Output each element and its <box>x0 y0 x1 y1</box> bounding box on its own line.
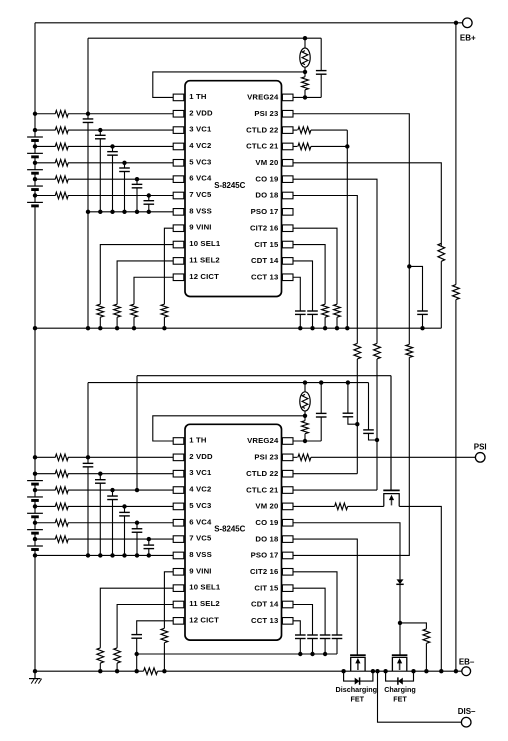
resistor charging gate pulldown <box>423 629 430 643</box>
wire clamp FET source to EB- column <box>399 506 441 671</box>
junction battery rail / row 5 (upper) <box>33 177 37 181</box>
svg-text:CCT 13: CCT 13 <box>251 616 278 625</box>
pin box 17 (upper right) <box>282 209 293 216</box>
wire CTLC 21 (upper) with resistor <box>293 145 298 147</box>
svg-text:FET: FET <box>393 694 407 703</box>
wire row to pin 7 (upper) with series resistor <box>35 195 56 197</box>
junction rail / VSS bus (upper) <box>33 326 37 330</box>
terminal EB+ <box>463 18 473 28</box>
pin box 13 (lower right) <box>282 618 293 625</box>
capacitor CDT (upper) <box>307 310 318 312</box>
junction filter cap tap (lower col 137.0) <box>135 521 139 525</box>
svg-text:10 SEL1: 10 SEL1 <box>189 583 221 592</box>
svg-text:PSI: PSI <box>474 443 487 452</box>
svg-text:4 VC2: 4 VC2 <box>189 485 211 494</box>
svg-text:DO 18: DO 18 <box>255 191 279 200</box>
resistor CIT (upper) <box>322 304 329 317</box>
wire pin 9 (upper) to pulldown column <box>164 228 173 304</box>
resistor pulldown (upper col 164.4) <box>161 304 168 317</box>
junction VSS row (upper) <box>86 210 90 214</box>
transistor Q3 Charging FET <box>392 654 408 656</box>
battery cell BT7 (lower stack) <box>27 496 43 498</box>
wire VM 20 (lower) with resistor to clamp FET <box>293 505 335 507</box>
junction PSI cap branch (upper) <box>407 264 411 268</box>
svg-text:6 VC4: 6 VC4 <box>189 517 212 526</box>
transistor Q1 VM clamp FET (lower) <box>383 489 399 491</box>
wire upper VSS bus (y=328.2) <box>35 327 441 329</box>
junction rail B / VREG cap column <box>319 380 323 384</box>
pin box 9 (lower left) <box>173 569 184 576</box>
pin box 8 (upper left) <box>173 209 184 216</box>
op-amp IC U1 S-8245C (upper) body <box>185 81 282 297</box>
wire DO 18 (lower) to discharging FET gate <box>293 539 358 655</box>
wire pin 10 (lower) to pulldown column <box>100 588 173 648</box>
wire VREG24 pin to cap (upper) <box>293 96 322 98</box>
wire TH pin 1 routing (upper) <box>153 72 305 98</box>
capacitor CIT (lower) <box>320 634 331 636</box>
svg-text:CTLC 21: CTLC 21 <box>246 485 279 494</box>
capacitor cell filter C (upper, col 148.8) <box>148 196 150 201</box>
wire upper VDD rail drop (x=88) <box>87 38 89 114</box>
terminal DIS- <box>461 717 471 727</box>
junction filter cap tap (lower col 112.5) <box>110 488 114 492</box>
pin box 20 (upper right) <box>282 160 293 167</box>
junction VSS row (lower) <box>135 553 139 557</box>
wire VM 20 (upper) to divider <box>293 163 442 246</box>
wire rail segments between upper cells <box>34 141 36 154</box>
capacitor CICT (lower) <box>131 634 142 636</box>
junction pulldown to ground bus <box>115 669 119 673</box>
junction battery rail / row 6 (upper) <box>33 193 37 197</box>
junction battery rail / row 2 (lower) <box>33 472 37 476</box>
junction CO gate / pull resistor <box>398 621 402 625</box>
svg-text:CTLD 22: CTLD 22 <box>246 125 278 134</box>
wire CIT 15 (upper) <box>293 245 325 305</box>
capacitor cell filter C (upper, col 100.3) <box>99 130 101 135</box>
wire rail A to FET gate <box>390 376 392 490</box>
wire ground bus left segment <box>35 670 144 672</box>
svg-text:7 VC5: 7 VC5 <box>189 190 212 199</box>
svg-text:11 SEL2: 11 SEL2 <box>189 599 220 608</box>
junction gate pulldown to EB- bus <box>424 669 428 673</box>
svg-text:EB–: EB– <box>459 658 475 667</box>
thermistor TH2 (lower) <box>304 383 306 392</box>
svg-text:S-8245C: S-8245C <box>214 525 245 534</box>
pin box 22 (upper right) <box>282 127 293 134</box>
pin box 24 (upper right) <box>282 94 293 101</box>
svg-text:10 SEL1: 10 SEL1 <box>189 239 221 248</box>
pin box 22 (lower right) <box>282 470 293 477</box>
pin box 1 (lower left) <box>173 438 184 445</box>
wire row to pin 5 (lower) with series resistor <box>35 505 56 507</box>
svg-text:5 VC3: 5 VC3 <box>189 157 211 166</box>
wire pin 9 VINI (lower) to sense resistor <box>164 572 173 629</box>
resistor pulldown (lower col 117.1) <box>114 648 121 663</box>
svg-text:2 VDD: 2 VDD <box>189 452 213 461</box>
wire DO 18 (upper) drop to lower CTLD <box>293 196 358 344</box>
junction CDT to bus <box>310 326 314 330</box>
wire CO 19 (upper) drop to lower CTLC <box>293 179 377 343</box>
capacitor PSI filter (upper) <box>417 310 428 312</box>
svg-text:CIT 15: CIT 15 <box>254 240 279 249</box>
junction CO column cap branch <box>375 438 379 442</box>
wire row to pin 5 (upper) with series resistor <box>35 162 56 164</box>
svg-text:Discharging: Discharging <box>336 685 378 694</box>
junction VSS row (lower) <box>122 553 126 557</box>
pin box 21 (upper right) <box>282 143 293 150</box>
resistor CO-CTLC interlink <box>374 343 381 359</box>
pin box 14 (lower right) <box>282 601 293 608</box>
capacitor cell filter C (upper, col 137.0) <box>136 179 138 184</box>
battery cell BT10 (lower stack) <box>27 545 43 547</box>
junction filter cap tap col x=88.0 (upper) <box>86 112 90 116</box>
junction DO column cap branch <box>355 422 359 426</box>
pin box 18 (upper right) <box>282 192 293 199</box>
svg-text:EB+: EB+ <box>460 33 476 42</box>
svg-text:3 VC1: 3 VC1 <box>189 468 212 477</box>
svg-text:8 VSS: 8 VSS <box>189 206 212 215</box>
svg-text:CIT2 16: CIT2 16 <box>250 223 278 232</box>
capacitor CTLC filter (lower) <box>368 383 370 430</box>
resistor CIT2 (upper) <box>334 304 341 317</box>
wire EB+ bleed column <box>455 23 457 285</box>
svg-text:CCT 13: CCT 13 <box>251 272 278 281</box>
svg-text:PSO 17: PSO 17 <box>251 207 279 216</box>
wire pin 11 (lower) to pulldown column <box>117 605 173 648</box>
wire lower CTLD 22 pin connection <box>293 473 358 475</box>
wire CIT 15 (lower) <box>293 588 325 635</box>
resistor pulldown (lower col 100.3) <box>97 648 104 663</box>
svg-text:CIT 15: CIT 15 <box>254 583 279 592</box>
pin box 7 (lower left) <box>173 536 184 543</box>
capacitor CTLD filter (lower) <box>347 383 349 414</box>
junction thermistor top on VDD rail (upper) <box>303 36 307 40</box>
wire row to pin 2 (lower) with series resistor <box>35 456 56 458</box>
junction VSS row (lower) <box>86 553 90 557</box>
junction pulldown to VSS bus (upper) <box>115 326 119 330</box>
junction rail to ground bus <box>33 669 37 673</box>
junction pulldown to VSS bus (upper) <box>162 326 166 330</box>
resistor VINI sense (lower) <box>161 628 168 642</box>
junction EB+ column to EB- bus <box>454 669 458 673</box>
junction filter cap tap (lower col 100.3) <box>98 472 102 476</box>
junction filter cap tap col x=124.5 (upper) <box>122 161 126 165</box>
resistor ground bus sense <box>144 668 158 675</box>
thermistor TH1 (upper) <box>304 38 306 48</box>
junction VINI resistor to ground bus <box>162 669 166 673</box>
svg-text:9 VINI: 9 VINI <box>189 566 211 575</box>
wire CIT2 16 (upper) <box>293 228 337 304</box>
wire CDT 14 (upper) <box>293 261 313 311</box>
svg-text:9 VINI: 9 VINI <box>189 223 211 232</box>
junction CICT column to ground bus <box>135 669 139 673</box>
junction battery rail / row 1 (lower) <box>33 455 37 459</box>
wire PSI 23 (upper) long drop <box>293 114 410 267</box>
junction battery rail / row 4 (lower) <box>33 504 37 508</box>
pin box 12 (upper left) <box>173 274 184 281</box>
battery cell BT5 (upper stack) <box>27 201 43 203</box>
wire PSI 23 (lower) with resistor to PSI terminal <box>293 456 298 458</box>
pin box 21 (lower right) <box>282 487 293 494</box>
wire CO column to charging FET gate bar <box>399 623 401 655</box>
resistor TH-VREG (upper) <box>304 72 306 77</box>
resistor PSI-PSO interlink <box>406 344 413 357</box>
junction pulldown to VSS bus (upper) <box>132 326 136 330</box>
pin box 1 (upper left) <box>173 94 184 101</box>
wire DIS- branch <box>378 671 462 722</box>
junction VSS row (upper) <box>135 210 139 214</box>
capacitor CCT (lower) <box>295 634 306 636</box>
wire left battery rail (EB+ net, x=35) <box>34 23 36 137</box>
junction battery rail / row 3 (lower) <box>33 488 37 492</box>
svg-text:12 CICT: 12 CICT <box>189 272 219 281</box>
battery cell BT8 (lower stack) <box>27 512 43 514</box>
junction thermistor top on rail B (lower) <box>303 380 307 384</box>
junction CCT to timing bus <box>298 652 302 656</box>
wire VREG24 pin to cap (lower) <box>293 440 322 442</box>
pin box 10 (lower left) <box>173 585 184 592</box>
junction battery rail / row 3 (upper) <box>33 144 37 148</box>
wire row to pin 6 (lower) with series resistor <box>35 522 56 524</box>
pin box 4 (upper left) <box>173 143 184 150</box>
svg-text:5 VC3: 5 VC3 <box>189 501 211 510</box>
svg-text:6 VC4: 6 VC4 <box>189 174 212 183</box>
pin box 8 (lower left) <box>173 552 184 559</box>
junction VSS row (upper) <box>122 210 126 214</box>
svg-text:FET: FET <box>351 694 365 703</box>
capacitor VREG-VDD (upper) <box>320 38 322 70</box>
junction pulldown to ground bus <box>98 669 102 673</box>
wire upper VSS row (pin 8) <box>88 211 173 213</box>
wire PSI column continues to lower PSO <box>408 266 410 344</box>
wire CTLD/CTLC tie column to bus (upper) <box>346 130 348 328</box>
svg-text:VREG24: VREG24 <box>247 93 279 102</box>
wire pin 10 (upper) to pulldown column <box>100 245 173 305</box>
battery cell BT3 (upper stack) <box>27 169 43 171</box>
pin box 3 (lower left) <box>173 470 184 477</box>
svg-text:VM 20: VM 20 <box>255 502 278 511</box>
junction VSS row (lower) <box>147 553 151 557</box>
resistor EB+ bleed <box>453 285 460 300</box>
battery cell BT2 (upper stack) <box>27 152 43 154</box>
pin box 19 (lower right) <box>282 519 293 526</box>
wire lower timing bus (y=654) <box>137 653 337 655</box>
junction CICT cap / timing bus (lower) <box>135 652 139 656</box>
terminal PSI <box>475 453 485 463</box>
capacitor cell filter C (lower col 100.3) <box>99 474 101 480</box>
svg-text:11 SEL2: 11 SEL2 <box>189 255 220 264</box>
battery cell BT9 (lower stack) <box>27 529 43 531</box>
wire row to pin 6 (upper) with series resistor <box>35 178 56 180</box>
capacitor cell filter C (lower col 88.0) <box>87 457 89 463</box>
junction VSS row (upper) <box>110 210 114 214</box>
wire row to pin 3 (upper) with series resistor <box>35 129 56 131</box>
junction VREG wire (upper) <box>303 95 307 99</box>
wire row to pin 7 (lower) with series resistor <box>35 538 56 540</box>
junction TH node (upper) <box>303 70 307 74</box>
wire lower rail B (VDD sense, y=382.6) <box>88 382 369 384</box>
wire row to pin 3 (lower) with series resistor <box>35 473 56 475</box>
capacitor cell filter C (upper, col 124.5) <box>124 163 126 168</box>
junction pulldown to VSS bus (upper) <box>98 326 102 330</box>
junction VSS row (upper) <box>98 210 102 214</box>
pin box 23 (lower right) <box>282 454 293 461</box>
capacitor CIT2 (lower) <box>332 634 343 636</box>
ground chassis symbol <box>34 671 36 678</box>
pin box 13 (upper right) <box>282 274 293 281</box>
wire upper VSS drop to bus (x=88) <box>87 212 89 328</box>
svg-text:CDT 14: CDT 14 <box>251 256 279 265</box>
pin box 24 (lower right) <box>282 438 293 445</box>
svg-text:VREG24: VREG24 <box>247 436 279 445</box>
svg-text:7 VC5: 7 VC5 <box>189 534 212 543</box>
svg-text:CDT 14: CDT 14 <box>251 600 279 609</box>
battery cell BT6 (lower stack) <box>27 480 43 482</box>
svg-text:Charging: Charging <box>384 685 416 694</box>
junction filter cap tap col x=112.5 (upper) <box>110 144 114 148</box>
junction VREG wire (lower) <box>303 439 307 443</box>
junction battery rail / row 4 (upper) <box>33 161 37 165</box>
capacitor cell filter C (lower col 112.5) <box>112 490 114 496</box>
svg-text:CIT2 16: CIT2 16 <box>250 567 278 576</box>
resistor pulldown (upper col 117.1) <box>114 304 121 317</box>
svg-text:PSI 23: PSI 23 <box>254 109 278 118</box>
junction battery rail / row 5 (lower) <box>33 521 37 525</box>
resistor pulldown (upper col 134.0) <box>131 304 138 317</box>
wire lower VSS row (pin 8) <box>35 554 173 556</box>
capacitor cell filter C (lower col 148.8) <box>148 539 150 545</box>
capacitor CDT (lower) <box>307 634 318 636</box>
wire row to pin 4 (lower) with series resistor <box>35 489 56 491</box>
junction CIT2 to bus <box>335 326 339 330</box>
junction VM clamp to EB- bus <box>439 669 443 673</box>
pin box 7 (upper left) <box>173 192 184 199</box>
junction VSS row (upper) <box>147 210 151 214</box>
wire EB+ stub to terminal <box>456 22 463 24</box>
junction x=88 column / bus <box>86 326 90 330</box>
wire row to pin 2 (upper) with series resistor <box>35 113 56 115</box>
wire CCT 13 (upper) <box>293 277 301 311</box>
svg-text:4 VC2: 4 VC2 <box>189 141 211 150</box>
junction rail A at lower VC2 <box>135 488 139 492</box>
junction filter cap tap (lower col 148.8) <box>147 537 151 541</box>
wire rail B drop to lower VDD <box>87 383 89 458</box>
battery cell BT4 (upper stack) <box>27 185 43 187</box>
junction DIS- branch <box>375 669 379 673</box>
junction CIT to bus <box>323 326 327 330</box>
battery cell BT1 (upper stack) <box>27 136 43 138</box>
capacitor cell filter C (upper, col 88.0) <box>87 114 89 119</box>
capacitor cell filter C (lower col 124.5) <box>124 506 126 512</box>
junction EB+ tap <box>454 21 458 25</box>
junction CIT to timing bus <box>323 652 327 656</box>
wire pin 12 (upper) to pulldown column <box>134 277 173 304</box>
pin box 20 (lower right) <box>282 503 293 510</box>
junction battery rail / row 1 (upper) <box>33 112 37 116</box>
pin box 12 (lower left) <box>173 618 184 625</box>
junction battery rail / row 6 (lower) <box>33 537 37 541</box>
wire lower CTLC 21 pin connection <box>293 489 377 491</box>
capacitor VREG-VDD (lower) <box>320 383 322 414</box>
pin box 16 (lower right) <box>282 569 293 576</box>
svg-text:DO 18: DO 18 <box>255 534 279 543</box>
wire pin 11 (upper) to pulldown column <box>117 261 173 304</box>
resistor pulldown (upper col 100.3) <box>97 304 104 317</box>
junction TH node (lower) <box>303 414 307 418</box>
wire rail segments between lower cells <box>34 484 36 497</box>
wire row to pin 4 (upper) with series resistor <box>35 145 56 147</box>
junction filter cap tap col x=148.8 (upper) <box>147 193 151 197</box>
junction rail B / CTLD filter cap <box>346 380 350 384</box>
junction filter cap tap (lower col 124.5) <box>122 504 126 508</box>
pin box 18 (lower right) <box>282 536 293 543</box>
pin box 19 (upper right) <box>282 176 293 183</box>
pin box 9 (upper left) <box>173 225 184 232</box>
junction CCT to bus <box>298 326 302 330</box>
svg-text:PSO 17: PSO 17 <box>251 551 279 560</box>
pin box 23 (upper right) <box>282 110 293 117</box>
junction filter cap tap col x=137.0 (upper) <box>135 177 139 181</box>
svg-text:DIS–: DIS– <box>458 707 476 716</box>
junction VSS row (lower) <box>110 553 114 557</box>
pin box 2 (lower left) <box>173 454 184 461</box>
resistor DO-CTLD interlink <box>354 343 361 359</box>
pin box 10 (upper left) <box>173 241 184 248</box>
pin box 11 (upper left) <box>173 258 184 265</box>
wire rail upper-lower link <box>34 328 36 480</box>
pin box 5 (upper left) <box>173 160 184 167</box>
wire rail A drop to lower VC2 <box>136 376 138 490</box>
resistor VM divider (upper) <box>438 243 445 261</box>
pin box 15 (lower right) <box>282 585 293 592</box>
svg-text:VM 20: VM 20 <box>255 158 278 167</box>
svg-text:3 VC1: 3 VC1 <box>189 125 212 134</box>
diode charge-gate (lower CO) <box>397 579 404 584</box>
junction battery rail / row 2 (upper) <box>33 128 37 132</box>
capacitor CCT (upper) <box>295 310 306 312</box>
svg-text:CO 19: CO 19 <box>255 518 278 527</box>
svg-text:12 CICT: 12 CICT <box>189 615 219 624</box>
junction rail at lower VSS row <box>33 553 37 557</box>
junction filter cap tap col x=100.3 (upper) <box>98 128 102 132</box>
junction PSI cap to bus <box>420 326 424 330</box>
svg-text:CTLC 21: CTLC 21 <box>246 142 279 151</box>
junction VSS row (lower) <box>98 553 102 557</box>
pin box 11 (lower left) <box>173 601 184 608</box>
pin box 5 (lower left) <box>173 503 184 510</box>
pin box 6 (lower left) <box>173 519 184 526</box>
svg-text:CO 19: CO 19 <box>255 174 278 183</box>
wire lower rail A (VC2 level shift, y=375.7) <box>137 375 391 377</box>
svg-text:2 VDD: 2 VDD <box>189 108 213 117</box>
wire upper VDD sense rail (y=38.2) <box>88 37 321 39</box>
wire top rail EB+ (y=22.5) <box>35 22 456 24</box>
op-amp IC U2 S-8245C (lower) body <box>185 424 282 640</box>
pin box 3 (upper left) <box>173 127 184 134</box>
capacitor cell filter C (lower col 137.0) <box>136 523 138 529</box>
pin box 4 (lower left) <box>173 487 184 494</box>
svg-text:1 TH: 1 TH <box>189 436 207 445</box>
wire TH pin 1 routing (lower) <box>153 416 305 441</box>
svg-text:CTLD 22: CTLD 22 <box>246 469 278 478</box>
wire CO 19 (lower) to charging FET gate <box>293 523 400 580</box>
wire ground bus to FETs <box>158 670 462 672</box>
svg-text:1 TH: 1 TH <box>189 92 207 101</box>
svg-text:S-8245C: S-8245C <box>214 181 245 190</box>
svg-text:8 VSS: 8 VSS <box>189 550 212 559</box>
pin box 17 (lower right) <box>282 552 293 559</box>
pin box 15 (upper right) <box>282 241 293 248</box>
